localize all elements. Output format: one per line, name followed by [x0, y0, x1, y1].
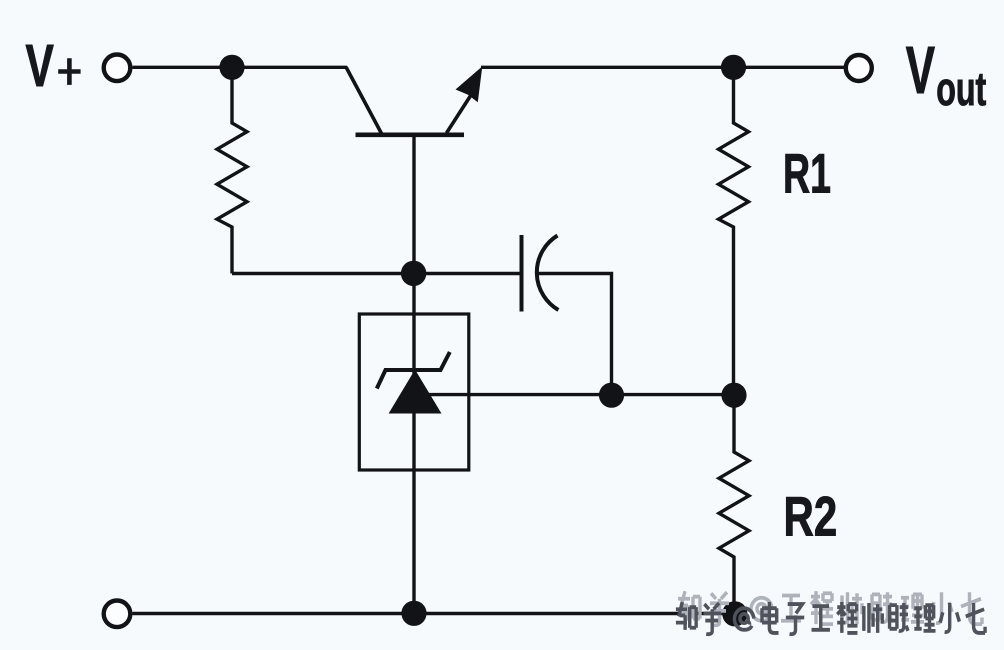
- terminal ground: [104, 601, 131, 628]
- wire top-right from transistor arrow to Vout terminal: [481, 66, 845, 69]
- wire bottom rail: [133, 612, 735, 615]
- junction node base: [401, 261, 426, 286]
- junction node top-right: [721, 55, 746, 80]
- Q1 emitter arrowhead: [456, 66, 483, 102]
- junction node R1/R2: [721, 383, 746, 408]
- svg-text:V: V: [906, 34, 935, 109]
- resistor R2: [719, 395, 749, 614]
- zener diode D1 anode triangle: [390, 371, 441, 414]
- Q1 emitter diagonal: [447, 95, 472, 133]
- resistor R1: [719, 67, 749, 395]
- zener diode D1 cathode bar: [377, 352, 450, 389]
- transistor Q1: [346, 67, 471, 135]
- junction node zener anode/bottom: [401, 601, 426, 626]
- terminal Vout: [846, 55, 872, 81]
- Q1 base bar: [356, 133, 465, 138]
- Q1 collector diagonal: [346, 67, 382, 134]
- junction node cap/feedback: [599, 383, 624, 408]
- wire top-left from V+ terminal to transistor emitter: [133, 66, 348, 69]
- terminal V+: [104, 55, 131, 82]
- junction node top-left: [219, 55, 244, 80]
- resistor R3 (left bias resistor): [217, 67, 247, 273]
- svg-text:R2: R2: [784, 486, 838, 548]
- wire base node horizontal: [232, 272, 522, 275]
- svg-text:R1: R1: [783, 143, 831, 205]
- svg-text:out: out: [936, 63, 986, 116]
- zener box U1: [359, 314, 469, 470]
- watermark dark layer (知乎 @电子工程师助理小七 pseudo-glyphs): [676, 602, 985, 634]
- wire capacitor right to feedback node: [538, 274, 612, 396]
- watermark light layer (知乎 @工程师助理小七 pseudo-glyphs): [678, 591, 982, 625]
- junction node R2 bottom: [722, 601, 747, 626]
- wire feedback horizontal to R1/R2 node: [429, 393, 734, 396]
- svg-text:V: V: [26, 32, 54, 99]
- wire base lead and zener vertical: [412, 135, 415, 614]
- capacitor C1 curved plate: [537, 236, 559, 311]
- capacitor C1 flat plate: [520, 235, 524, 312]
